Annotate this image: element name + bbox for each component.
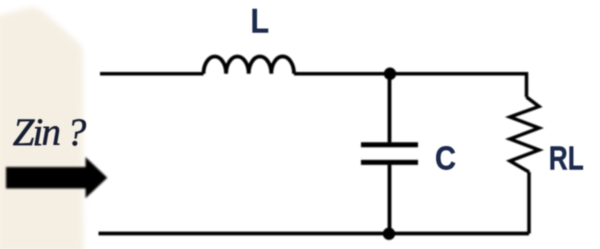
wire: capacitor upper lead xyxy=(388,74,392,143)
svg-text:RL: RL xyxy=(549,140,584,177)
background slide corner (cream panel) xyxy=(0,8,84,249)
node: bottom junction dot xyxy=(383,228,395,240)
arrow: Zin input arrow xyxy=(6,157,107,198)
wire: resistor bottom vertical xyxy=(527,172,531,234)
wire: top horizontal from inductor to right corner xyxy=(294,72,527,76)
wire: bottom horizontal rail xyxy=(99,232,530,236)
resistor RL (zigzag) xyxy=(510,97,539,172)
wire: right vertical drop to resistor xyxy=(525,72,529,97)
capacitor C top plate xyxy=(361,142,418,147)
capacitor C bottom plate xyxy=(361,160,418,165)
svg-text:C: C xyxy=(435,140,456,177)
wire: capacitor lower lead xyxy=(388,165,392,234)
node: top junction dot xyxy=(384,68,396,80)
svg-text:L: L xyxy=(251,2,270,40)
inductor L (4 humps) xyxy=(204,56,295,73)
svg-text:Zin ?: Zin ? xyxy=(13,111,87,154)
wire: top-left horizontal segment xyxy=(100,72,204,76)
